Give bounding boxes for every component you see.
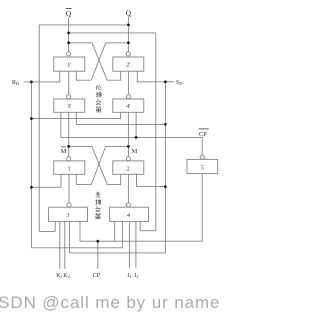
wire slave X bottom left xyxy=(76,71,91,80)
svg-text:5: 5 xyxy=(201,165,204,171)
wire Q feedback left vertical xyxy=(38,25,40,232)
wire CPbar stub into gate 4' xyxy=(135,112,137,137)
wire J1 input xyxy=(128,222,130,269)
gate 1' output bubble xyxy=(67,52,71,56)
node RD top joint xyxy=(30,81,33,84)
gate 2 (master NAND) xyxy=(113,161,144,174)
node Mbar joint xyxy=(67,145,70,148)
wire gate 2 to gate 4 bubble xyxy=(127,174,129,202)
svg-text:J1: J1 xyxy=(127,273,131,279)
svg-text:Q: Q xyxy=(66,9,72,18)
label master flip-flop (zhu chu fa qi) drawn glyphs xyxy=(95,192,100,219)
node Qbar-feedback joint xyxy=(67,32,70,35)
gate 1' (slave NAND) xyxy=(54,57,85,71)
wire K2 input xyxy=(64,222,66,269)
wire RD branch to gate 4' xyxy=(31,112,120,118)
wire J2 input xyxy=(135,222,137,269)
wire master cross-coupling left top xyxy=(69,145,92,147)
wire Q feedback bottom horizontal xyxy=(39,231,55,233)
svg-text:RD: RD xyxy=(12,80,19,86)
wire slave cross-coupling right top xyxy=(106,42,129,44)
gate 3' output bubble xyxy=(67,95,71,99)
node SD top joint xyxy=(164,80,167,83)
node SD lower joint xyxy=(164,185,167,188)
wire CP horizontal xyxy=(80,174,202,242)
gate 3 (master input NAND) xyxy=(49,207,88,221)
svg-text:SD: SD xyxy=(176,80,182,86)
wire master cross-coupling right top xyxy=(106,145,129,147)
wire RD vertical bus xyxy=(30,82,32,248)
wire Q-bar feedback stub into gate 4 xyxy=(139,222,141,231)
wire CP input vertical xyxy=(97,241,99,269)
wire K1 input xyxy=(59,222,61,269)
svg-text:2': 2' xyxy=(126,63,130,69)
wire Q-bar feedback top horizontal xyxy=(69,32,156,34)
wire CPbar horizontal xyxy=(61,137,202,155)
wire gate 1' to gate 3' bubble xyxy=(68,71,70,94)
svg-text:3: 3 xyxy=(66,213,69,219)
gate 5 output bubble xyxy=(200,155,204,159)
wire SD bottom branch to gate 3 xyxy=(69,222,165,253)
wire Q feedback top horizontal xyxy=(39,24,128,26)
svg-text:K1: K1 xyxy=(56,273,62,279)
node CPbar joint xyxy=(135,136,138,139)
wire M vertical gate 4' to gate 2 xyxy=(127,112,129,156)
wire SD branch to gate 3' xyxy=(76,112,165,124)
node CP joint xyxy=(96,240,99,243)
wire Q vertical xyxy=(127,17,129,52)
svg-text:CSDN @call me by ur name: CSDN @call me by ur name xyxy=(0,293,220,312)
gate 5 (CP inverter) xyxy=(187,159,218,173)
wire SD input stub xyxy=(165,81,173,83)
gate 2' (slave NAND) xyxy=(113,57,144,71)
svg-text:K2: K2 xyxy=(63,273,69,279)
gate 1 output bubble xyxy=(67,157,71,161)
wire slave X bottom right xyxy=(107,71,121,80)
wire slave X diagonal Qbar-to-2' xyxy=(92,43,107,80)
svg-text:M: M xyxy=(132,148,138,155)
svg-text:M: M xyxy=(61,148,67,155)
node Q joint xyxy=(127,24,130,27)
wire RD bottom branch to gate 4 xyxy=(31,222,122,248)
node M joint xyxy=(127,145,130,148)
wire CPbar stub into gate 3' xyxy=(60,112,62,137)
wire Q-bar feedback bottom horizontal xyxy=(140,230,156,232)
svg-text:Q: Q xyxy=(126,8,132,17)
wire SD vertical bus xyxy=(164,82,166,253)
svg-text:3': 3' xyxy=(67,104,71,110)
wire RD branch to gate 1 xyxy=(31,174,61,187)
gate 1 (master NAND) xyxy=(54,161,85,174)
svg-text:CP: CP xyxy=(199,131,207,138)
node SD mid joint xyxy=(164,123,167,126)
wire SD branch to gate 2 xyxy=(137,174,166,186)
svg-text:CP: CP xyxy=(93,273,101,279)
node RD mid joint xyxy=(30,117,33,120)
wire RD input horizontal xyxy=(24,71,60,82)
svg-text:2: 2 xyxy=(127,166,130,172)
gate 2 output bubble xyxy=(126,157,130,161)
gate 4 output bubble xyxy=(126,203,130,207)
wire slave X diagonal Q-to-1' xyxy=(91,43,106,80)
gate 3' (slave steering NAND) xyxy=(54,99,85,112)
gate 4' (slave steering NAND) xyxy=(113,99,144,112)
gate 4 (master input NAND) xyxy=(110,207,149,221)
svg-text:J2: J2 xyxy=(134,273,138,279)
node Qbar cross joint xyxy=(67,41,70,44)
wire master X bottom right xyxy=(107,174,121,184)
gate 2' output bubble xyxy=(126,52,130,56)
gate 4' output bubble xyxy=(126,95,130,99)
wire gate 1 to gate 3 bubble xyxy=(68,174,70,202)
wire CP stub into gate 4 xyxy=(114,222,116,242)
wire master X diagonal Mbar-to-2 xyxy=(92,146,107,184)
wire master X diagonal M-to-1 xyxy=(91,146,106,184)
wire slave cross-coupling left top xyxy=(69,42,92,44)
gate 3 output bubble xyxy=(67,203,71,207)
svg-text:1: 1 xyxy=(68,166,71,172)
wire Q-bar feedback right vertical xyxy=(155,33,157,231)
wire SD to gate 2' xyxy=(137,71,165,82)
node RD lower joint xyxy=(30,186,33,189)
wire Mbar vertical gate 3' to gate 1 xyxy=(68,112,70,156)
wire Q-bar vertical xyxy=(68,18,70,52)
label slave flip-flop (cong chu fa qi) drawn glyphs xyxy=(96,85,101,112)
wire Q feedback stub into gate 3 xyxy=(54,222,56,232)
svg-text:4': 4' xyxy=(126,104,130,110)
svg-text:1': 1' xyxy=(67,63,71,69)
node Q cross joint xyxy=(127,41,130,44)
wire master X bottom left xyxy=(76,174,91,184)
wire gate 2' to gate 4' bubble xyxy=(127,71,129,94)
svg-text:4: 4 xyxy=(127,213,130,219)
wire CP stub into gate 3 xyxy=(79,222,81,242)
